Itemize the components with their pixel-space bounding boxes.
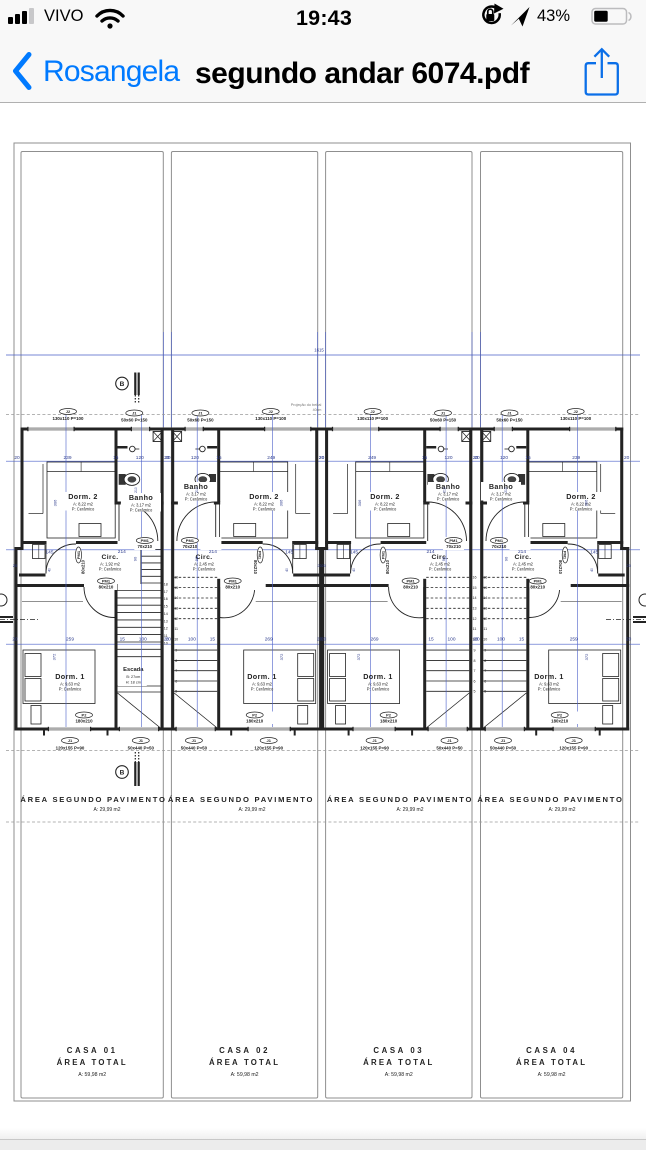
room labels bbox=[555, 492, 607, 511]
svg-text:14: 14 bbox=[174, 596, 178, 600]
house unit walls x=480.5 bbox=[615, 428, 623, 431]
svg-text:214: 214 bbox=[426, 549, 434, 555]
door arcs bbox=[118, 502, 120, 541]
svg-text:249: 249 bbox=[368, 455, 376, 461]
dashed line bbox=[6, 821, 640, 823]
svg-text:372: 372 bbox=[279, 653, 284, 660]
svg-text:50x60 P=150: 50x60 P=150 bbox=[187, 418, 214, 423]
banho sink bbox=[200, 446, 206, 452]
svg-text:1615: 1615 bbox=[314, 348, 324, 353]
svg-text:Dorm. 1: Dorm. 1 bbox=[363, 672, 393, 681]
svg-text:50x440 P=50: 50x440 P=50 bbox=[490, 746, 517, 751]
nav bar bbox=[0, 36, 646, 103]
svg-text:6: 6 bbox=[175, 679, 177, 683]
svg-text:50x60 P=150: 50x60 P=150 bbox=[430, 418, 457, 423]
svg-text:J2: J2 bbox=[370, 409, 375, 414]
svg-text:A: 29,99 m2: A: 29,99 m2 bbox=[397, 807, 424, 813]
blue horizontal construction lines bbox=[6, 460, 640, 462]
svg-text:20: 20 bbox=[12, 637, 18, 643]
svg-text:A: 59,98 m2: A: 59,98 m2 bbox=[78, 1072, 106, 1078]
svg-text:J1: J1 bbox=[139, 738, 144, 743]
svg-text:50x60 P=150: 50x60 P=150 bbox=[121, 418, 148, 423]
svg-text:12: 12 bbox=[164, 627, 168, 631]
svg-text:J1: J1 bbox=[507, 411, 512, 416]
svg-text:180x210: 180x210 bbox=[75, 719, 93, 724]
svg-text:306: 306 bbox=[278, 499, 283, 506]
svg-text:120x155 P=90: 120x155 P=90 bbox=[559, 746, 588, 751]
svg-text:7: 7 bbox=[175, 669, 177, 673]
svg-text:B: B bbox=[120, 381, 125, 388]
svg-text:P: Cerâmico: P: Cerâmico bbox=[193, 567, 216, 572]
door arcs bbox=[427, 502, 429, 541]
svg-text:CASA 03: CASA 03 bbox=[373, 1046, 424, 1055]
svg-text:H: 18 cm: H: 18 cm bbox=[126, 681, 141, 685]
svg-text:20: 20 bbox=[321, 563, 326, 568]
svg-text:120: 120 bbox=[444, 455, 452, 461]
dorm1 bed bbox=[23, 650, 95, 704]
svg-text:40: 40 bbox=[590, 568, 594, 572]
rotation lock icon bbox=[483, 4, 503, 23]
house unit walls x=21.0 bbox=[21, 428, 29, 431]
svg-text:PM1: PM1 bbox=[534, 579, 543, 584]
svg-text:J1: J1 bbox=[447, 738, 452, 743]
door arcs bbox=[215, 502, 217, 541]
lot panels bbox=[21, 152, 163, 1099]
room labels bbox=[359, 492, 411, 511]
svg-text:180x210: 180x210 bbox=[380, 719, 398, 724]
svg-text:P: Cerâmico: P: Cerâmico bbox=[185, 497, 208, 502]
svg-text:80x210: 80x210 bbox=[530, 585, 545, 590]
svg-text:100: 100 bbox=[188, 637, 196, 643]
svg-text:ÁREA SEGUNDO PAVIMENTO: ÁREA SEGUNDO PAVIMENTO bbox=[20, 795, 166, 804]
svg-text:100: 100 bbox=[139, 637, 147, 643]
svg-text:12: 12 bbox=[174, 617, 178, 621]
svg-text:7: 7 bbox=[474, 669, 476, 673]
svg-text:Dorm. 2: Dorm. 2 bbox=[566, 492, 596, 501]
svg-text:ÁREA SEGUNDO PAVIMENTO: ÁREA SEGUNDO PAVIMENTO bbox=[327, 795, 473, 804]
svg-text:5: 5 bbox=[484, 690, 486, 694]
svg-text:13: 13 bbox=[473, 607, 477, 611]
svg-text:40: 40 bbox=[352, 568, 356, 572]
svg-text:ÁREA TOTAL: ÁREA TOTAL bbox=[516, 1058, 587, 1067]
svg-text:CASA 02: CASA 02 bbox=[219, 1046, 270, 1055]
back chevron bbox=[16, 55, 30, 88]
svg-text:Banho: Banho bbox=[489, 482, 514, 491]
svg-text:J2: J2 bbox=[66, 409, 71, 414]
svg-text:P: Cerâmico: P: Cerâmico bbox=[253, 507, 276, 512]
staircase bbox=[483, 576, 526, 578]
svg-text:J1: J1 bbox=[266, 738, 271, 743]
svg-text:9: 9 bbox=[175, 649, 177, 653]
svg-text:12: 12 bbox=[483, 617, 487, 621]
svg-text:15: 15 bbox=[210, 637, 216, 643]
svg-text:80x210: 80x210 bbox=[225, 585, 240, 590]
svg-text:15: 15 bbox=[216, 455, 222, 461]
svg-text:13: 13 bbox=[174, 607, 178, 611]
svg-text:J1: J1 bbox=[192, 738, 197, 743]
svg-text:50x440 P=50: 50x440 P=50 bbox=[128, 746, 155, 751]
house unit walls x=171.4 bbox=[310, 428, 318, 431]
svg-text:P: Cerâmico: P: Cerâmico bbox=[490, 497, 513, 502]
shaft box bbox=[153, 432, 162, 442]
section mark B bottom bbox=[116, 766, 129, 779]
svg-text:15: 15 bbox=[525, 455, 531, 461]
svg-text:269: 269 bbox=[265, 637, 273, 643]
svg-text:13: 13 bbox=[483, 607, 487, 611]
svg-text:100: 100 bbox=[447, 637, 455, 643]
svg-text:259: 259 bbox=[66, 637, 74, 643]
svg-text:20: 20 bbox=[626, 637, 632, 643]
svg-text:50x440 P=50: 50x440 P=50 bbox=[436, 746, 463, 751]
svg-text:ÁREA SEGUNDO PAVIMENTO: ÁREA SEGUNDO PAVIMENTO bbox=[168, 795, 314, 804]
svg-text:8: 8 bbox=[474, 659, 476, 663]
svg-text:130x110 P=100: 130x110 P=100 bbox=[560, 416, 591, 421]
shaft box bbox=[172, 432, 181, 442]
svg-text:120x155 P=90: 120x155 P=90 bbox=[254, 746, 283, 751]
svg-text:145: 145 bbox=[350, 550, 358, 556]
svg-text:ÁREA TOTAL: ÁREA TOTAL bbox=[57, 1058, 128, 1067]
furniture dorm2 bed bbox=[47, 462, 115, 538]
wifi icon bbox=[97, 10, 123, 28]
shaft box bbox=[482, 432, 491, 442]
svg-text:372: 372 bbox=[584, 653, 589, 660]
svg-text:249: 249 bbox=[267, 455, 275, 461]
svg-text:70x210: 70x210 bbox=[137, 544, 152, 549]
svg-text:214: 214 bbox=[209, 549, 217, 555]
signal bars bbox=[8, 17, 13, 24]
svg-text:120: 120 bbox=[191, 455, 199, 461]
svg-text:120: 120 bbox=[500, 455, 508, 461]
wardrobe bbox=[294, 545, 307, 559]
svg-text:11: 11 bbox=[483, 627, 487, 631]
svg-text:15: 15 bbox=[473, 586, 477, 590]
window/door labels bbox=[53, 409, 84, 422]
svg-text:PM1: PM1 bbox=[563, 551, 568, 560]
location arrow bbox=[511, 7, 530, 27]
svg-text:A: 59,98 m2: A: 59,98 m2 bbox=[385, 1072, 413, 1078]
svg-text:180x210: 180x210 bbox=[246, 719, 264, 724]
party wall connectors across lot gaps bbox=[163, 428, 172, 431]
svg-text:259: 259 bbox=[570, 637, 578, 643]
svg-text:372: 372 bbox=[52, 653, 57, 660]
svg-text:J1: J1 bbox=[198, 411, 203, 416]
escada label bbox=[118, 663, 147, 686]
svg-text:Dorm. 1: Dorm. 1 bbox=[534, 672, 564, 681]
window/door labels bbox=[560, 409, 591, 422]
svg-text:210: 210 bbox=[134, 487, 138, 493]
room labels bbox=[57, 492, 109, 511]
svg-text:A: 29,99 m2: A: 29,99 m2 bbox=[94, 807, 121, 813]
svg-text:20: 20 bbox=[317, 563, 322, 568]
svg-text:J1: J1 bbox=[441, 411, 446, 416]
svg-text:50x60 P=150: 50x60 P=150 bbox=[496, 418, 523, 423]
svg-text:11: 11 bbox=[473, 627, 477, 631]
svg-text:Banho: Banho bbox=[436, 482, 461, 491]
svg-text:15: 15 bbox=[113, 455, 119, 461]
svg-text:A: 29,99 m2: A: 29,99 m2 bbox=[549, 807, 576, 813]
banho sink bbox=[438, 446, 444, 452]
battery bbox=[592, 9, 627, 25]
toilet bbox=[209, 474, 216, 485]
svg-text:40: 40 bbox=[48, 568, 52, 572]
svg-text:15: 15 bbox=[120, 637, 126, 643]
svg-text:80x210: 80x210 bbox=[81, 559, 86, 574]
svg-text:15: 15 bbox=[483, 586, 487, 590]
svg-text:20: 20 bbox=[14, 455, 20, 461]
svg-text:90: 90 bbox=[441, 556, 446, 561]
svg-text:J1: J1 bbox=[132, 411, 137, 416]
svg-text:90: 90 bbox=[133, 556, 138, 561]
svg-text:15: 15 bbox=[428, 637, 434, 643]
svg-text:20: 20 bbox=[164, 637, 170, 643]
svg-text:210: 210 bbox=[195, 487, 199, 493]
svg-text:210: 210 bbox=[504, 487, 508, 493]
svg-text:214: 214 bbox=[118, 549, 126, 555]
svg-text:16: 16 bbox=[473, 576, 477, 580]
svg-text:50x440 P=50: 50x440 P=50 bbox=[181, 746, 208, 751]
svg-text:145: 145 bbox=[45, 550, 53, 556]
svg-text:20: 20 bbox=[13, 563, 18, 568]
svg-text:80x210: 80x210 bbox=[253, 560, 258, 575]
svg-text:90: 90 bbox=[503, 556, 508, 561]
svg-text:Dorm. 1: Dorm. 1 bbox=[247, 672, 277, 681]
svg-text:Dorm. 2: Dorm. 2 bbox=[370, 492, 400, 501]
svg-text:269: 269 bbox=[371, 637, 379, 643]
dashed line below plan bbox=[6, 750, 640, 752]
svg-text:Circ.: Circ. bbox=[101, 554, 118, 561]
dorm1 bed bbox=[328, 650, 400, 704]
svg-text:100: 100 bbox=[497, 637, 505, 643]
svg-text:306: 306 bbox=[52, 499, 57, 506]
svg-text:120x155 P=90: 120x155 P=90 bbox=[56, 746, 85, 751]
svg-text:214: 214 bbox=[518, 549, 526, 555]
edge section marks right bbox=[639, 594, 646, 606]
svg-text:A: 29,99 m2: A: 29,99 m2 bbox=[239, 807, 266, 813]
svg-text:B: B bbox=[120, 770, 125, 777]
house unit walls x=325.6 bbox=[325, 428, 333, 431]
svg-text:J1: J1 bbox=[501, 738, 506, 743]
blue axis lines bbox=[272, 415, 274, 727]
svg-text:80x210: 80x210 bbox=[403, 585, 418, 590]
furniture dorm2 bed bbox=[356, 462, 424, 538]
svg-text:P: Cerâmico: P: Cerâmico bbox=[538, 687, 561, 692]
wardrobe bbox=[599, 545, 612, 559]
svg-text:Banho: Banho bbox=[129, 493, 154, 502]
svg-text:9: 9 bbox=[484, 649, 486, 653]
staircase bbox=[174, 576, 217, 578]
svg-text:A: 59,98 m2: A: 59,98 m2 bbox=[231, 1072, 259, 1078]
svg-text:372: 372 bbox=[356, 653, 361, 660]
svg-text:P2: P2 bbox=[386, 713, 392, 718]
svg-text:PM1: PM1 bbox=[141, 538, 150, 543]
svg-text:80x210: 80x210 bbox=[558, 560, 563, 575]
svg-text:5: 5 bbox=[474, 690, 476, 694]
svg-text:5: 5 bbox=[175, 690, 177, 694]
svg-text:Dorm. 2: Dorm. 2 bbox=[249, 492, 279, 501]
svg-text:20: 20 bbox=[626, 563, 631, 568]
svg-text:90: 90 bbox=[194, 556, 199, 561]
svg-text:6: 6 bbox=[484, 679, 486, 683]
status bar bbox=[0, 0, 646, 36]
svg-text:P: Cerâmico: P: Cerâmico bbox=[570, 507, 593, 512]
banho sink bbox=[509, 446, 515, 452]
svg-text:P: Cerâmico: P: Cerâmico bbox=[367, 687, 390, 692]
svg-text:J1: J1 bbox=[571, 738, 576, 743]
svg-text:P: Cerâmico: P: Cerâmico bbox=[59, 687, 82, 692]
svg-text:B: 27cm: B: 27cm bbox=[126, 675, 140, 679]
svg-text:10: 10 bbox=[174, 638, 178, 642]
svg-text:8: 8 bbox=[484, 659, 486, 663]
svg-text:14: 14 bbox=[473, 596, 477, 600]
svg-text:PM1: PM1 bbox=[76, 550, 81, 559]
furniture dorm2 bed bbox=[220, 462, 288, 538]
staircase bbox=[141, 549, 161, 551]
svg-text:PM1: PM1 bbox=[381, 550, 386, 559]
svg-text:14: 14 bbox=[164, 612, 168, 616]
wardrobe bbox=[337, 545, 350, 559]
svg-text:239: 239 bbox=[572, 455, 580, 461]
svg-text:J1: J1 bbox=[68, 738, 73, 743]
svg-text:15: 15 bbox=[422, 455, 428, 461]
svg-text:CASA 04: CASA 04 bbox=[526, 1046, 577, 1055]
svg-text:P: Cerâmico: P: Cerâmico bbox=[437, 497, 460, 502]
svg-text:7: 7 bbox=[484, 669, 486, 673]
blue divider axis lines above plan bbox=[162, 332, 164, 427]
dimension line 1615 bbox=[6, 354, 640, 356]
svg-text:20: 20 bbox=[474, 455, 480, 461]
svg-text:16: 16 bbox=[483, 576, 487, 580]
furniture dorm2 bed bbox=[529, 462, 597, 538]
svg-text:P: Cerâmico: P: Cerâmico bbox=[99, 567, 122, 572]
svg-text:14: 14 bbox=[483, 596, 487, 600]
room labels bbox=[238, 492, 290, 511]
svg-text:ÁREA SEGUNDO PAVIMENTO: ÁREA SEGUNDO PAVIMENTO bbox=[477, 795, 623, 804]
svg-text:Dorm. 1: Dorm. 1 bbox=[55, 672, 85, 681]
svg-text:Escada: Escada bbox=[123, 667, 144, 673]
svg-text:PM1: PM1 bbox=[229, 579, 238, 584]
section mark B top bbox=[116, 377, 129, 390]
svg-text:15: 15 bbox=[519, 637, 525, 643]
svg-text:18: 18 bbox=[164, 583, 168, 587]
svg-text:210: 210 bbox=[443, 487, 447, 493]
svg-text:P2: P2 bbox=[82, 713, 88, 718]
svg-text:PM1: PM1 bbox=[102, 579, 111, 584]
svg-text:80x210: 80x210 bbox=[385, 559, 390, 574]
window/door labels bbox=[357, 409, 388, 422]
svg-text:130x110 P=100: 130x110 P=100 bbox=[357, 416, 388, 421]
svg-text:P2: P2 bbox=[252, 713, 258, 718]
svg-text:70x210: 70x210 bbox=[183, 544, 198, 549]
svg-text:P2: P2 bbox=[557, 713, 563, 718]
svg-text:40: 40 bbox=[285, 568, 289, 572]
svg-text:80x210: 80x210 bbox=[99, 585, 114, 590]
svg-text:13: 13 bbox=[164, 619, 168, 623]
svg-text:6: 6 bbox=[474, 679, 476, 683]
svg-text:PM1: PM1 bbox=[449, 538, 458, 543]
svg-text:40cm: 40cm bbox=[313, 408, 322, 412]
svg-text:PM1: PM1 bbox=[495, 538, 504, 543]
svg-text:PM1: PM1 bbox=[186, 538, 195, 543]
window/door labels bbox=[255, 409, 286, 422]
staircase bbox=[426, 576, 469, 578]
svg-text:11: 11 bbox=[174, 627, 178, 631]
svg-text:20: 20 bbox=[165, 455, 171, 461]
svg-text:J2: J2 bbox=[268, 409, 273, 414]
dorm1 bed bbox=[244, 650, 316, 704]
svg-text:145: 145 bbox=[590, 550, 598, 556]
door arcs bbox=[524, 502, 526, 541]
svg-text:8: 8 bbox=[175, 659, 177, 663]
svg-text:20: 20 bbox=[624, 455, 630, 461]
blue axis lines bbox=[370, 415, 372, 727]
svg-text:P: Cerâmico: P: Cerâmico bbox=[130, 508, 153, 513]
svg-text:P: Cerâmico: P: Cerâmico bbox=[251, 687, 274, 692]
svg-text:A: 59,98 m2: A: 59,98 m2 bbox=[538, 1072, 566, 1078]
shaft box bbox=[462, 432, 471, 442]
svg-text:15: 15 bbox=[164, 605, 168, 609]
svg-text:Dorm. 2: Dorm. 2 bbox=[68, 492, 98, 501]
svg-text:PM1: PM1 bbox=[258, 551, 263, 560]
svg-text:10: 10 bbox=[483, 638, 487, 642]
toilet bbox=[518, 474, 525, 485]
svg-text:P: Cerâmico: P: Cerâmico bbox=[512, 567, 535, 572]
svg-text:Circ.: Circ. bbox=[514, 554, 531, 561]
svg-text:20: 20 bbox=[317, 637, 323, 643]
svg-text:16: 16 bbox=[164, 597, 168, 601]
svg-text:145: 145 bbox=[285, 550, 293, 556]
svg-text:Projeção do beiral: Projeção do beiral bbox=[291, 403, 322, 407]
dashed eave line bbox=[6, 414, 640, 416]
svg-text:ÁREA TOTAL: ÁREA TOTAL bbox=[363, 1058, 434, 1067]
svg-text:180x210: 180x210 bbox=[551, 719, 569, 724]
svg-text:306: 306 bbox=[583, 499, 588, 506]
svg-text:70x210: 70x210 bbox=[446, 544, 461, 549]
svg-text:20: 20 bbox=[473, 637, 479, 643]
svg-text:70x210: 70x210 bbox=[492, 544, 507, 549]
drawing outer frame bbox=[14, 143, 631, 1101]
svg-text:306: 306 bbox=[357, 499, 362, 506]
toilet bbox=[427, 474, 434, 485]
svg-text:J1: J1 bbox=[372, 738, 377, 743]
svg-text:12: 12 bbox=[473, 617, 477, 621]
svg-text:ÁREA TOTAL: ÁREA TOTAL bbox=[209, 1058, 280, 1067]
svg-text:P: Cerâmico: P: Cerâmico bbox=[72, 507, 95, 512]
svg-text:16: 16 bbox=[174, 576, 178, 580]
svg-text:9: 9 bbox=[474, 649, 476, 653]
svg-text:P: Cerâmico: P: Cerâmico bbox=[374, 507, 397, 512]
svg-text:CASA 01: CASA 01 bbox=[67, 1046, 118, 1055]
svg-text:J2: J2 bbox=[573, 409, 578, 414]
svg-text:20: 20 bbox=[319, 455, 325, 461]
blue axis lines bbox=[65, 415, 67, 727]
share icon bbox=[586, 49, 618, 94]
svg-text:P: Cerâmico: P: Cerâmico bbox=[429, 567, 452, 572]
svg-text:120: 120 bbox=[136, 455, 144, 461]
wardrobe bbox=[33, 545, 46, 559]
dorm1 bed bbox=[549, 650, 621, 704]
svg-text:15: 15 bbox=[174, 586, 178, 590]
svg-text:120x155 P=90: 120x155 P=90 bbox=[360, 746, 389, 751]
blue axis lines bbox=[577, 415, 579, 727]
svg-text:17: 17 bbox=[164, 590, 168, 594]
svg-text:PM1: PM1 bbox=[406, 579, 415, 584]
edge section marks left bbox=[0, 594, 7, 606]
banho sink bbox=[130, 446, 136, 452]
toilet bbox=[119, 474, 126, 485]
svg-text:130x110 P=100: 130x110 P=100 bbox=[255, 416, 286, 421]
svg-text:130x110 P=100: 130x110 P=100 bbox=[53, 416, 84, 421]
svg-text:239: 239 bbox=[63, 455, 71, 461]
